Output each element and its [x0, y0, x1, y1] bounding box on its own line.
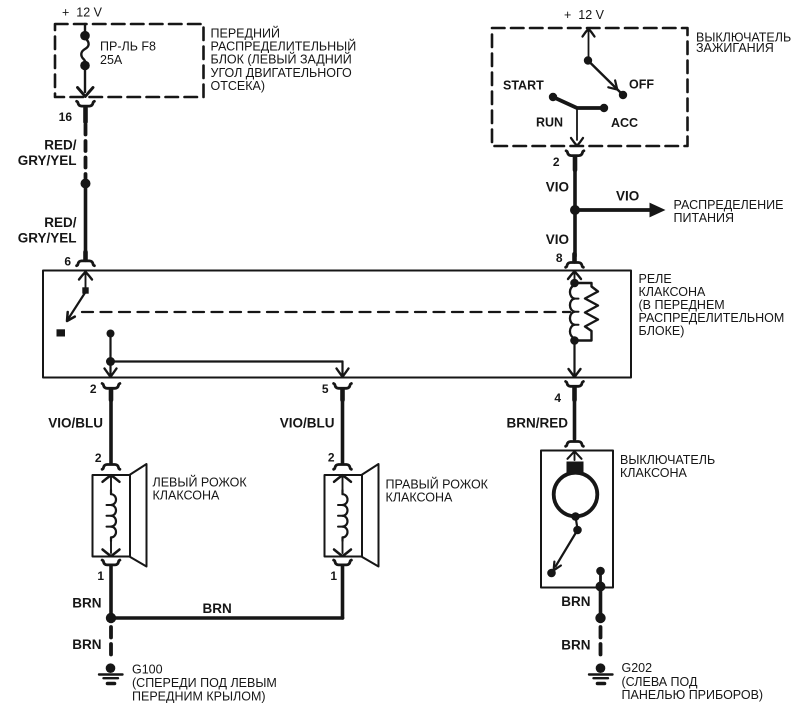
- wire BRN dashed to G100: [109, 627, 113, 655]
- relay box entry arrow pin 8 (up): [568, 271, 581, 285]
- connector pin 2 ignition (socket opening up): [566, 151, 584, 170]
- svg-text:BRN: BRN: [72, 637, 101, 652]
- svg-text:START: START: [503, 79, 544, 93]
- svg-text:6: 6: [64, 255, 71, 269]
- wire BRN dashed to G202: [599, 627, 603, 655]
- svg-text:VIO/BLU: VIO/BLU: [48, 416, 103, 431]
- left horn entry arrow (up): [103, 475, 120, 490]
- wire BRN left horn down: [109, 566, 113, 618]
- node splice VIO: [570, 205, 580, 215]
- contact ACC: [600, 104, 608, 112]
- wire BRN horizontal bus: [111, 616, 343, 620]
- relay actuation dashed link: [82, 311, 570, 313]
- connector relay pin 2 (socket opening up): [102, 384, 120, 401]
- svg-text:ACC: ACC: [611, 116, 638, 130]
- svg-text:РЕЛЕ: РЕЛЕ: [639, 272, 672, 286]
- connector pin 6 (socket opening down): [77, 252, 95, 266]
- svg-text:VIO: VIO: [546, 180, 569, 195]
- fuse F8 25A: [80, 24, 90, 70]
- svg-text:VIO: VIO: [616, 189, 639, 204]
- wire BRN right horn down to bus: [341, 566, 345, 618]
- svg-text:БЛОКЕ): БЛОКЕ): [639, 324, 685, 338]
- svg-text:(СПЕРЕДИ ПОД ЛЕВЫМ: (СПЕРЕДИ ПОД ЛЕВЫМ: [132, 676, 277, 690]
- svg-text:ПЕРЕДНИЙ: ПЕРЕДНИЙ: [211, 26, 280, 41]
- svg-text:ЛЕВЫЙ РОЖОК: ЛЕВЫЙ РОЖОК: [153, 475, 248, 490]
- node splice BRN (right): [595, 613, 605, 623]
- svg-text:G202: G202: [622, 661, 653, 675]
- svg-text:КЛАКСОНА: КЛАКСОНА: [386, 491, 453, 505]
- svg-text:2: 2: [90, 382, 97, 396]
- left horn exit arrow (down): [103, 541, 120, 556]
- relay box entry arrow pin 6 (up): [79, 272, 92, 288]
- svg-text:КЛАКСОНА: КЛАКСОНА: [639, 285, 706, 299]
- node splice BRN (left): [106, 613, 116, 623]
- svg-text:КЛАКСОНА: КЛАКСОНА: [153, 489, 220, 503]
- ignition switch pivot node: [584, 56, 592, 64]
- node at horn circle bottom: [571, 512, 580, 521]
- horn switch terminal block (filled): [567, 462, 584, 474]
- svg-text:GRY/YEL: GRY/YEL: [18, 153, 77, 168]
- svg-text:BRN/RED: BRN/RED: [506, 416, 568, 431]
- svg-text:(СЛЕВА ПОД: (СЛЕВА ПОД: [622, 675, 698, 689]
- svg-text:VIO/BLU: VIO/BLU: [280, 416, 335, 431]
- svg-text:4: 4: [554, 391, 561, 405]
- front power distribution box (dashed): [55, 24, 204, 97]
- svg-text:OFF: OFF: [629, 77, 654, 91]
- connector relay pin 4 (socket opening up): [566, 382, 584, 401]
- ground G202: [589, 663, 613, 683]
- svg-text:РАСПРЕДЕЛЕНИЕ: РАСПРЕДЕЛЕНИЕ: [674, 198, 784, 212]
- wire VIO (upper): [573, 168, 577, 205]
- svg-text:ПИТАНИЯ: ПИТАНИЯ: [674, 211, 735, 225]
- wire VIO/BLU (left): [109, 398, 113, 463]
- svg-text:1: 1: [97, 569, 104, 583]
- svg-text:VIO: VIO: [546, 232, 569, 247]
- relay coil bottom node: [570, 336, 579, 345]
- ignition switch output wire (down): [571, 108, 583, 146]
- relay output node (switch side): [107, 330, 115, 338]
- wire to push contact: [576, 517, 578, 530]
- svg-text:BRN: BRN: [561, 638, 590, 653]
- horn switch entry arrow (up): [568, 451, 582, 460]
- ground G100: [99, 663, 123, 683]
- wire VIO to power distribution (arrow right): [575, 203, 666, 218]
- node output junction: [106, 357, 115, 366]
- left horn coil: [111, 490, 116, 541]
- svg-text:RUN: RUN: [536, 115, 563, 129]
- connector horn switch feed (socket opening down): [566, 442, 584, 447]
- right horn entry arrow (up): [334, 475, 351, 490]
- svg-text:ОТСЕКА): ОТСЕКА): [211, 79, 266, 93]
- push switch arm (arrow down-left): [554, 530, 578, 570]
- left horn body: [93, 475, 131, 557]
- svg-text:G100: G100: [132, 663, 163, 677]
- connector pin 16 (socket opening up): [77, 101, 95, 122]
- wire RED/GRY/YEL (solid): [84, 184, 88, 254]
- svg-text:1: 1: [330, 569, 337, 583]
- relay resistor R (right zigzag branch): [575, 283, 599, 341]
- wire BRN/RED: [573, 398, 577, 439]
- fuse box exit arrow (down): [78, 67, 94, 97]
- svg-text:ЗАЖИГАНИЯ: ЗАЖИГАНИЯ: [696, 41, 774, 55]
- right horn flare: [362, 464, 379, 567]
- svg-text:РАСПРЕДЕЛИТЕЛЬНОМ: РАСПРЕДЕЛИТЕЛЬНОМ: [639, 311, 785, 325]
- ignition switch arm to OFF: [588, 61, 621, 94]
- relay box K1 horn relay: [43, 271, 631, 378]
- push contact node: [573, 526, 582, 535]
- horn switch output contact: [596, 567, 605, 576]
- wire VIO/BLU (middle): [341, 398, 345, 463]
- svg-text:ПРАВЫЙ РОЖОК: ПРАВЫЙ РОЖОК: [386, 477, 489, 492]
- svg-text:КЛАКСОНА: КЛАКСОНА: [620, 466, 687, 480]
- svg-text:(В ПЕРЕДНЕМ: (В ПЕРЕДНЕМ: [639, 298, 725, 312]
- svg-text:+ 12 V: + 12 V: [62, 6, 103, 20]
- svg-text:ПАНЕЛЬЮ ПРИБОРОВ): ПАНЕЛЬЮ ПРИБОРОВ): [622, 688, 764, 702]
- connector right horn pin 2 (socket opening down): [334, 465, 352, 470]
- svg-text:+ 12 V: + 12 V: [564, 8, 605, 22]
- svg-text:25A: 25A: [100, 53, 123, 67]
- contact OFF: [619, 91, 627, 99]
- connector left horn pin 1 (socket opening up): [102, 560, 120, 565]
- connector pin 8 (socket opening down): [566, 254, 584, 267]
- wire to output junction: [109, 334, 111, 362]
- svg-text:2: 2: [328, 451, 335, 465]
- connector left horn pin 2 (socket opening down): [102, 465, 120, 470]
- svg-text:РАСПРЕДЕЛИТЕЛЬНЫЙ: РАСПРЕДЕЛИТЕЛЬНЫЙ: [211, 39, 357, 54]
- horn switch box S1: [541, 451, 613, 588]
- right horn body: [325, 475, 363, 557]
- svg-text:RED/: RED/: [44, 138, 77, 153]
- wire junction to pin 5 branch: [111, 360, 343, 362]
- svg-text:УГОЛ ДВИГАТЕЛЬНОГО: УГОЛ ДВИГАТЕЛЬНОГО: [211, 66, 353, 80]
- relay box exit arrow pin 5 (down): [337, 362, 349, 377]
- wire to box edge: [599, 571, 602, 585]
- svg-text:BRN: BRN: [561, 594, 590, 609]
- contact START: [549, 93, 557, 101]
- svg-text:ВЫКЛЮЧАТЕЛЬ: ВЫКЛЮЧАТЕЛЬ: [620, 453, 715, 467]
- wire BRN below horn switch: [599, 587, 603, 615]
- ignition switch box (dashed): [492, 28, 688, 146]
- svg-text:2: 2: [95, 451, 102, 465]
- wire VIO (lower): [573, 210, 577, 256]
- svg-text:2: 2: [553, 155, 560, 169]
- wire RED/GRY/YEL (dashed): [84, 125, 88, 179]
- left horn flare: [130, 464, 147, 567]
- relay coil top node: [570, 279, 579, 288]
- relay coil L (left scalloped branch): [570, 286, 575, 338]
- svg-text:16: 16: [59, 110, 73, 124]
- relay switch arm (open, arrow down-left): [67, 292, 86, 321]
- svg-text:БЛОК (ЛЕВЫЙ ЗАДНИЙ: БЛОК (ЛЕВЫЙ ЗАДНИЙ: [211, 52, 352, 67]
- connector relay pin 5 (socket opening up): [334, 384, 352, 401]
- svg-text:8: 8: [556, 251, 563, 265]
- ignition switch feed arrow (up to +12V): [583, 29, 595, 58]
- svg-text:RED/: RED/: [44, 215, 77, 230]
- relay switch throw contact (bottom-left square): [57, 329, 66, 336]
- node at box edge: [596, 582, 606, 592]
- connector right horn pin 1 (socket opening up): [334, 560, 352, 565]
- svg-text:ПЕРЕДНИМ КРЫЛОМ): ПЕРЕДНИМ КРЫЛОМ): [132, 690, 266, 704]
- right horn exit arrow (down): [334, 541, 351, 556]
- push switch throw contact: [547, 569, 556, 578]
- svg-text:5: 5: [322, 382, 329, 396]
- relay switch fixed contact (top): [82, 287, 88, 293]
- svg-text:GRY/YEL: GRY/YEL: [18, 231, 77, 246]
- ignition switch bridge START-RUN-ACC: [553, 97, 604, 108]
- node splice S1: [81, 179, 91, 189]
- right horn coil: [343, 490, 348, 541]
- horn symbol circle: [554, 473, 598, 517]
- svg-text:BRN: BRN: [72, 596, 101, 611]
- svg-text:ПР-ЛЬ F8: ПР-ЛЬ F8: [100, 40, 156, 54]
- svg-text:BRN: BRN: [203, 601, 232, 616]
- relay box exit arrow pin 4 (down): [569, 341, 581, 378]
- relay box exit arrow pin 2 (down): [105, 362, 117, 377]
